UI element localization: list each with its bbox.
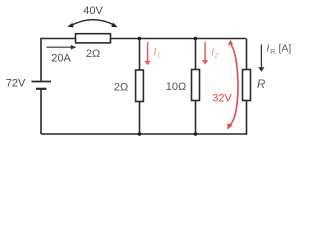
svg-text:I: I [267,44,270,55]
wire branch1 upper [139,39,141,71]
svg-text:2Ω: 2Ω [114,82,128,94]
resistor 2ohm branch box [136,70,144,102]
node dot top-left junction [138,37,142,41]
wire left upper [40,38,42,81]
svg-text:R: R [257,79,265,91]
svg-text:2: 2 [214,53,219,60]
wire right upper [246,39,248,71]
svg-text:[A]: [A] [279,43,292,55]
svg-text:2Ω: 2Ω [86,48,100,60]
svg-text:1: 1 [157,53,161,60]
svg-text:72V: 72V [6,78,26,90]
wire branch1 lower [139,102,141,135]
svg-text:20A: 20A [51,53,71,65]
node dot top-right junction [194,37,198,41]
wire left lower [40,89,42,134]
resistor R box [243,70,251,101]
svg-text:40V: 40V [83,5,103,17]
arrow I1 red [144,42,151,65]
wire branch2 lower [195,101,197,135]
node dot bottom-right junction [194,132,198,136]
arrow IR black [258,45,264,72]
arrow I2 red [202,42,209,65]
battery V1 long plate [32,81,52,83]
wire top [41,38,246,40]
arrow 32V red curved double-headed [227,40,238,130]
wire bottom [41,133,247,135]
node dot bottom-left junction [138,132,142,136]
battery V1 short plate [36,88,47,90]
svg-text:10Ω: 10Ω [166,81,186,93]
wire right lower [246,101,248,135]
resistor 10ohm box [192,70,200,101]
wire branch2 upper [195,39,197,71]
resistor 2ohm series box [76,34,111,43]
arrow 20A current [47,45,77,50]
svg-text:R: R [270,49,275,56]
arrow 40V curved double-headed [67,20,117,28]
svg-text:32V: 32V [212,93,232,105]
